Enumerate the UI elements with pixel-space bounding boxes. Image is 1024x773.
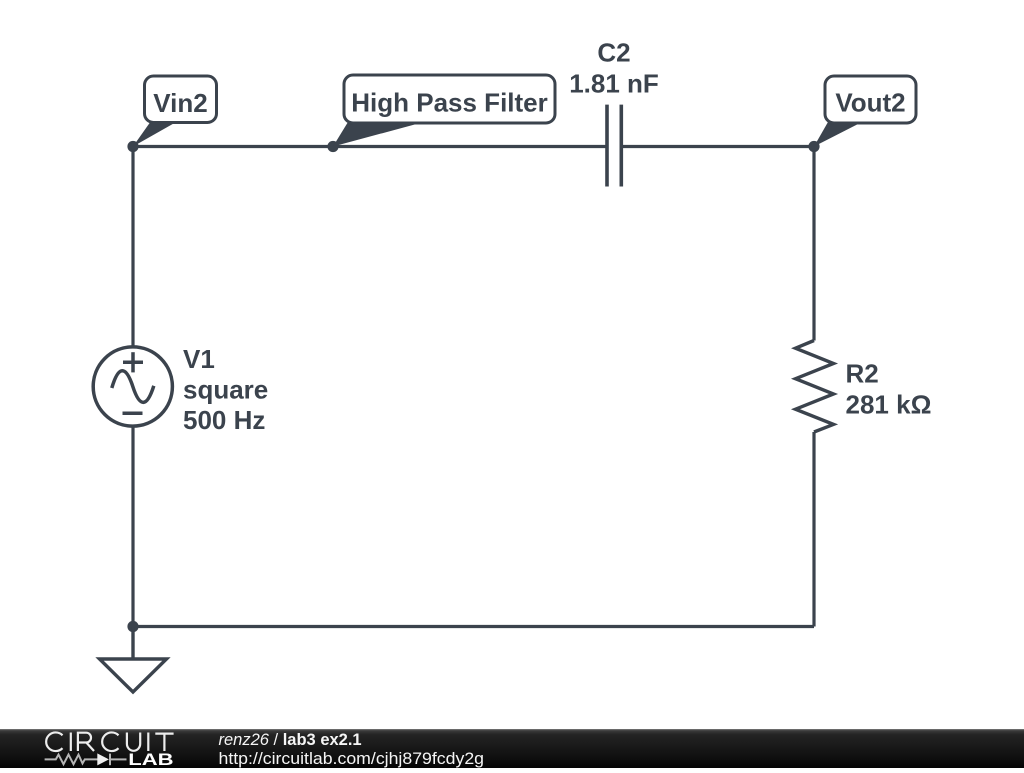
wire top-left segment (Vin2 to C2 left plate) [133,145,606,148]
CircuitLab logo wordmark CIRCUIT [46,732,173,751]
svg-text:Vout2: Vout2 [835,88,905,118]
wire right rail lower (R2 bottom to bottom wire) [812,432,815,627]
wire top-right segment (C2 right plate to Vout2) [623,145,815,148]
flag Vout2 [814,76,916,147]
svg-text:renz26 / lab3 ex2.1: renz26 / lab3 ex2.1 [219,731,362,749]
node junction dot Vout2 [808,141,819,152]
svg-text:High Pass Filter: High Pass Filter [351,88,548,118]
flag Vin2 [133,76,217,147]
wire bottom (ground node to right rail) [133,625,814,628]
svg-text:http://circuitlab.com/cjhj879f: http://circuitlab.com/cjhj879fcdy2g [219,749,485,768]
footer bar [0,729,1024,768]
flag High Pass Filter [333,75,555,147]
node junction dot Vin2 [127,141,138,152]
capacitor C2 [607,105,621,187]
wire left rail upper (Vin2 node down to V1 top) [131,147,134,347]
node junction dot ground [127,621,138,632]
wire left rail lower (V1 bottom to ground node) [131,427,134,627]
svg-text:1.81 nF: 1.81 nF [569,69,659,99]
ground [100,627,167,693]
svg-text:C2: C2 [597,38,630,68]
resistor R2 [796,341,834,433]
CircuitLab logo resistor-diode glyph [45,754,127,766]
voltage source V1 [93,347,172,426]
svg-text:LAB: LAB [128,750,173,768]
svg-text:Vin2: Vin2 [153,88,207,118]
node junction dot High Pass Filter [327,141,338,152]
wire right rail upper (Vout2 node to R2 top) [812,147,815,341]
